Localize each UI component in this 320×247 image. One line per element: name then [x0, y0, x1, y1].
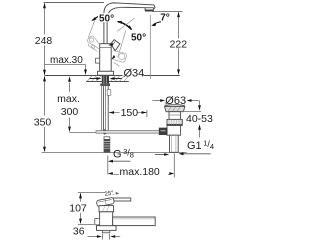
pop-up locknut	[167, 119, 182, 125]
G3/8 stud connector	[104, 137, 110, 140]
side view bottom tick line	[78, 224, 94, 226]
dimension 248 top arrow	[43, 3, 46, 9]
horizontal pop-up rod	[96, 131, 160, 134]
G3/8 leader arrow	[113, 160, 131, 162]
7 degree arc with arrow	[153, 22, 161, 25]
side lever handle stick	[113, 198, 131, 201]
side shank stub	[102, 230, 109, 232]
dimension 350 vertical line	[44, 77, 46, 151]
spout outlet extension line	[149, 15, 151, 79]
50 degree arc right thick	[118, 22, 131, 30]
svg-text:40-53: 40-53	[186, 113, 213, 125]
max.30 right arrow	[85, 65, 87, 71]
countertop hatch left	[87, 76, 101, 82]
side spout bar	[113, 217, 156, 226]
svg-text:50°: 50°	[131, 33, 146, 44]
dimension 40-53 upper arrow	[199, 101, 201, 106]
dimension 350 bottom arrow	[43, 147, 46, 153]
G3/8 threaded stud	[104, 139, 111, 152]
222 top arrow	[177, 12, 180, 18]
threaded shank	[102, 76, 109, 84]
dimension 248 vertical line	[44, 3, 46, 75]
Ø63 right arrow (points left)	[191, 100, 199, 102]
hose bundle below nut	[102, 86, 106, 130]
phantom lever (right of body)	[112, 51, 126, 67]
svg-text:max.: max.	[57, 93, 80, 105]
dimension 36 line with arrows	[88, 236, 98, 238]
dimension 150 line	[109, 112, 147, 114]
countertop bottom line	[86, 81, 129, 83]
svg-text:max.180: max.180	[120, 166, 160, 178]
150 right arrow	[142, 111, 147, 114]
countertop hatch right	[110, 76, 128, 82]
rod housing left	[159, 128, 167, 135]
Ø63 extension ticks	[165, 102, 184, 105]
pop-up rod junction	[101, 129, 109, 134]
side lever paddle	[96, 197, 114, 206]
dimension 222 vertical line	[178, 13, 180, 71]
lever arc arrowhead at riser	[108, 43, 113, 46]
svg-text:max.30: max.30	[50, 55, 83, 66]
40-53 tick line	[183, 111, 202, 113]
pop-up body	[167, 126, 181, 136]
phantom lever arrow at body edge	[111, 55, 115, 60]
40-53 lower arrow	[199, 130, 201, 138]
spout aerator	[145, 8, 153, 11]
body cartridge line	[100, 47, 112, 49]
svg-text:350: 350	[34, 117, 52, 129]
pop-up waste flange top	[165, 105, 185, 108]
top extension line	[44, 2, 104, 4]
max.180 right extension line	[173, 154, 175, 178]
side base plinth	[97, 226, 117, 231]
svg-text:Ø34: Ø34	[124, 68, 145, 80]
max.180 left extension line	[107, 156, 109, 175]
222 bottom arrow	[177, 69, 180, 75]
50 degree arc left with arrow	[93, 15, 104, 20]
svg-text:50°: 50°	[99, 13, 114, 24]
pop-up neck	[169, 112, 181, 120]
side view top tick line	[78, 192, 106, 194]
bottom reference line	[42, 152, 187, 154]
svg-text:222: 222	[170, 39, 188, 51]
faucet spout (front view)	[104, 3, 155, 44]
svg-text:248: 248	[35, 35, 53, 47]
svg-text:150: 150	[121, 107, 139, 119]
body left tab	[96, 58, 100, 63]
G1 1/4 arrows at tailpipe	[155, 154, 165, 156]
rod holder block	[107, 90, 111, 96]
7 degree datum line	[152, 11, 183, 13]
hole diameter arrow right (points left)	[114, 78, 121, 80]
150 right extension tick	[146, 110, 148, 117]
countertop top line	[45, 75, 180, 77]
label 50 deg top	[98, 13, 117, 22]
svg-text:36: 36	[73, 225, 85, 237]
dimension max.30 line	[45, 64, 86, 66]
faucet body column	[100, 44, 112, 72]
dimension max.300 arrow up	[69, 83, 71, 93]
lever axis thin line	[118, 31, 126, 58]
pop-up waste flange body	[165, 107, 185, 112]
phantom axis line right	[117, 18, 134, 31]
side body block	[100, 212, 113, 226]
svg-text:300: 300	[61, 106, 79, 118]
107 top arrow	[79, 193, 82, 199]
107 bottom arrow	[79, 219, 82, 225]
mounting nut	[100, 83, 110, 86]
dimension 107 line	[80, 193, 82, 223]
150 left arrow	[109, 111, 114, 114]
side back tab	[95, 219, 100, 225]
phantom axis line left	[88, 20, 95, 38]
max.180 left arrow	[108, 172, 113, 175]
side cartridge neck	[99, 206, 114, 212]
Ø63 left arrow (points right)	[153, 100, 162, 102]
lever handle (right, solid)	[111, 40, 120, 51]
dimension 248 bottom arrow	[43, 70, 46, 76]
dimension max.180 line	[114, 174, 171, 176]
svg-text:7°: 7°	[160, 12, 170, 23]
max.300 bottom tick line	[70, 132, 97, 134]
max.180 right arrow	[169, 172, 174, 175]
pop-up tailpipe	[170, 135, 179, 152]
phantom lever (left)	[87, 36, 99, 52]
label max.180	[119, 165, 162, 177]
svg-text:107: 107	[69, 203, 87, 215]
hole diameter arrow left (points right)	[90, 78, 97, 80]
36 extension ticks	[103, 234, 110, 240]
dimension max.300 lower line and arrow down	[69, 118, 71, 127]
lever inner line	[112, 42, 115, 46]
faucet base plate	[98, 71, 114, 75]
dimension 350 top arrow	[43, 76, 46, 82]
